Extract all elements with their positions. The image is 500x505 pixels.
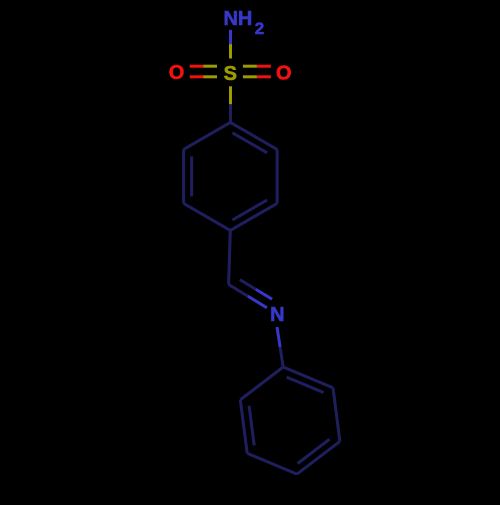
svg-text:N: N	[223, 8, 237, 30]
svg-text:H: H	[238, 8, 252, 30]
svg-text:O: O	[276, 62, 292, 84]
svg-text:2: 2	[255, 19, 264, 38]
svg-text:N: N	[270, 304, 284, 326]
svg-text:S: S	[224, 63, 237, 85]
svg-text:O: O	[169, 62, 185, 84]
